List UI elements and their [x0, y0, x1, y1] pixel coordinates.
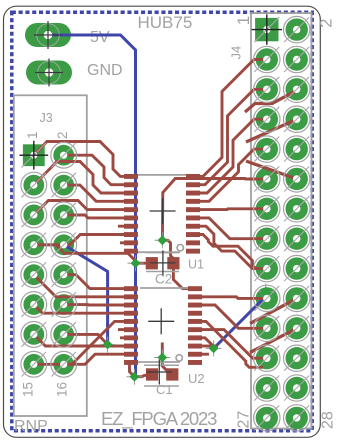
op-amp U1 silkscreen — [134, 175, 188, 252]
wire J3 pin12 to U2 pad — [64, 303, 138, 306]
transistor-array U2 silkscreen — [135, 288, 188, 362]
J4 pad 16 — [286, 228, 308, 250]
J3 pad 14 — [53, 324, 74, 345]
wire J3 pin14 to via — [64, 334, 108, 344]
connector J4 silkscreen box — [251, 13, 312, 429]
wire diagonal to J4 pin12 — [246, 161, 297, 179]
wire J3 pin6 to U1 pad6 — [64, 215, 138, 218]
wire J3 pin3 to U1 pad3 — [34, 162, 138, 194]
J4 pad 2 — [286, 18, 308, 40]
svg-text:1: 1 — [25, 131, 40, 139]
wire U2 pad14 to J4 pin21 — [202, 305, 265, 328]
wire J3 pin7 to U1 pad8 — [34, 235, 138, 245]
wire stub U1 pad7 — [118, 225, 138, 228]
wire via to J4 pin19 pad — [266, 292, 267, 299]
J4 pad 25 — [256, 377, 278, 399]
svg-text:15: 15 — [21, 382, 36, 397]
svg-text:HUB75: HUB75 — [138, 13, 193, 32]
wire J3 pin2 to U1 pad2 — [64, 155, 138, 185]
wire via up stub — [161, 343, 164, 358]
wire via to J4 pin11 — [162, 179, 264, 241]
J3 pad 4 — [53, 175, 74, 196]
J4 pad 6 — [286, 78, 308, 100]
svg-text:27: 27 — [236, 411, 253, 429]
connector J3 silkscreen box — [14, 95, 87, 416]
wire U2 pad10 stub — [202, 345, 218, 348]
svg-text:28: 28 — [320, 411, 337, 429]
J4 pad 27 — [256, 407, 278, 429]
wire U1 pad11 to J4 pin15 — [200, 218, 265, 239]
wire diagonal to J4 pin20 — [250, 298, 297, 323]
capacitor C2 silkscreen — [146, 253, 179, 272]
J3 pad 3 — [23, 175, 44, 196]
J4 pad 8 — [286, 108, 308, 130]
wire U1 pad10 to J4 pin17 — [200, 226, 265, 268]
svg-text:RNP: RNP — [14, 418, 48, 435]
pad drill holes and marks — [19, 141, 48, 170]
C2 origin cross — [150, 250, 175, 275]
J3 pad 12 — [53, 294, 74, 315]
J4 pad 11 — [256, 168, 278, 190]
svg-text:2: 2 — [55, 131, 70, 139]
wire stub U2 left row6 — [118, 328, 138, 331]
J4 pad 13 — [256, 198, 278, 220]
via near J4 pin19 — [258, 284, 274, 300]
GND pad drill — [35, 59, 63, 87]
pad GND — [26, 61, 72, 85]
capacitor C1 silkscreen — [144, 365, 179, 386]
wire J3 pin5 to U1 pad5 — [34, 201, 138, 216]
wire via to C1 right pad — [162, 358, 172, 375]
J4 pad 15 — [256, 228, 278, 250]
wire bottom-layer J3 pin8 to via — [64, 245, 108, 345]
J3 pad 2 — [53, 145, 74, 166]
U1 left pads — [124, 174, 138, 179]
J4 pad 14 — [286, 198, 308, 220]
J4 pad 9 — [256, 138, 278, 160]
via left of C2 on 5V line — [128, 255, 144, 271]
J4 pad 12 — [286, 168, 308, 190]
wire J3 pin7 to via near C2 — [34, 245, 136, 263]
wire U1 pad12 to J4 pin13 — [200, 207, 265, 211]
U2 origin cross — [148, 308, 174, 334]
5V pad drill — [34, 21, 62, 49]
svg-text:5V: 5V — [90, 29, 110, 46]
wire U1 pad14 to J4 pin7 — [200, 119, 265, 193]
wire stub U1 left row9 — [120, 241, 138, 244]
U2 right pads — [188, 286, 202, 291]
svg-text:2: 2 — [318, 19, 336, 28]
J3 pad 16 — [53, 354, 74, 375]
wire U2 pad12 to J4 pin23b — [202, 330, 265, 359]
J4 pad 23 — [256, 347, 278, 369]
svg-text:U1: U1 — [188, 258, 204, 272]
wire via to C2 left pad — [136, 262, 152, 265]
J4 pad 10 — [286, 138, 308, 160]
J3 pad 1 — [23, 144, 45, 166]
wire U1 pad9 to J4 pin17b — [200, 235, 257, 269]
C1 origin cross — [147, 360, 172, 385]
J4 pad 7 — [256, 108, 278, 130]
J3 pad 15 — [23, 354, 44, 375]
J4 pad 26 — [286, 377, 308, 399]
svg-text:C1: C1 — [156, 382, 173, 397]
wire bottom-layer diagonal to J4 area — [214, 292, 266, 349]
J4 pad 5 — [256, 78, 278, 100]
svg-text:GND: GND — [87, 62, 123, 79]
J4 pad 28 — [286, 407, 308, 429]
wire U2 pad11 to via — [202, 338, 214, 349]
U2 left pads — [124, 286, 138, 291]
via end of J3 blue wire — [100, 337, 116, 353]
wire stub U2 left row7 — [120, 336, 138, 339]
J4 pad 24 — [286, 347, 308, 369]
svg-text:1: 1 — [234, 16, 253, 25]
wire diagonal to J4 pin22 — [250, 328, 297, 352]
via right of U2 — [206, 340, 222, 356]
J3 pad 7 — [23, 234, 44, 255]
capacitor C1 pads — [146, 368, 158, 380]
J4 pad 1 — [255, 18, 278, 41]
J3 pad 13 — [23, 324, 44, 345]
wire diagonal to J4 pin6 — [245, 91, 297, 113]
J3 pad 10 — [53, 264, 74, 285]
wire J3 pin1 to U1 pad1 — [34, 142, 138, 177]
wire 5V bottom-layer from 5V pad down middle — [48, 35, 136, 377]
wire J3 pin15 to U2 pad — [34, 321, 138, 364]
J4 pad 4 — [286, 48, 308, 70]
J4 pad 20 — [286, 287, 308, 309]
J3 pad 8 — [53, 234, 74, 255]
via bottom of 5V line — [126, 369, 142, 385]
wire J3 pin4 to U1 pad4 — [64, 185, 138, 201]
J3 pad 9 — [23, 264, 44, 285]
svg-text:16: 16 — [55, 382, 70, 397]
wire J3 pin13 to U2 pad — [34, 334, 138, 346]
wire via to C1 left pad — [134, 375, 152, 377]
J4 pad 3 — [256, 48, 278, 70]
J3 pad 6 — [53, 205, 74, 226]
J3 pad 11 — [23, 294, 44, 315]
J3 pad 5 — [23, 205, 44, 226]
U1 origin cross — [150, 198, 176, 224]
J4 pad 19 — [256, 287, 278, 309]
wire via to U2 pad — [130, 362, 135, 376]
wire U2 pad9 stub — [202, 353, 209, 356]
svg-text:C2: C2 — [155, 272, 172, 287]
wire U1 pad16 to J4 pin3 — [200, 60, 265, 177]
svg-text:EZ_FPGA 2023: EZ_FPGA 2023 — [101, 408, 217, 430]
capacitor C2 pads — [146, 257, 158, 269]
wire U1 pad15 to J4 pin5 — [200, 89, 265, 184]
U1 right pads — [186, 174, 200, 179]
wire via to C2 right pad — [162, 240, 173, 263]
wire U1 pad13 to J4 pin9 — [200, 149, 265, 201]
wire diagonal to J4 pin8 — [246, 119, 297, 142]
wire J3 pin16 to U2 pad — [64, 354, 138, 364]
wire J3 pin11 to U2 pad — [34, 305, 138, 314]
J4 pad 21 — [256, 317, 278, 339]
wire J3 pin10 to U2 pad — [64, 275, 138, 289]
J4 pad 18 — [286, 257, 308, 279]
pad 5V — [25, 23, 71, 47]
J4 pad 22 — [286, 317, 308, 339]
svg-text:J4: J4 — [229, 46, 244, 60]
via above C1 — [154, 350, 170, 366]
wire U2 pad13 to J4 pin23 — [202, 321, 263, 367]
J4 pad 17 — [256, 257, 278, 279]
wire J3 pin9 to U2 pad — [34, 275, 138, 297]
wire C2 to U2 pad16 — [173, 269, 200, 289]
wire U2 pad15 to J4 pin19 — [202, 297, 265, 299]
svg-text:U2: U2 — [188, 371, 205, 386]
svg-text:J3: J3 — [40, 111, 53, 125]
via above C2 — [154, 232, 170, 248]
